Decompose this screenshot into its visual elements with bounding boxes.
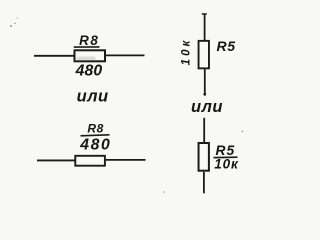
wire (left lead of resistor R8, bottom-left): [37, 159, 75, 161]
paper speck: [16, 17, 17, 18]
wire end blob (bottom of R5 lower lead): [203, 93, 206, 96]
paper speck: [242, 131, 244, 133]
svg-text:или: или: [77, 88, 109, 106]
wire (right lead of resistor R8, top-left): [106, 54, 145, 56]
svg-text:или: или: [191, 98, 223, 116]
svg-text:10к: 10к: [180, 38, 192, 66]
paper speck: [163, 191, 165, 193]
resistor R8 (bottom-left, horizontal body): [75, 156, 105, 166]
smudge inside resistor R8 body (scan artifact): [77, 57, 96, 61]
wire (upper lead of resistor R5, bottom-right): [203, 118, 205, 143]
paper speck: [14, 23, 15, 24]
fraction bar R8/480 (bottom-left): [81, 135, 110, 136]
wire (upper lead of resistor R5, top-right): [204, 14, 206, 42]
svg-text:10к: 10к: [214, 157, 239, 172]
resistor R5 (bottom-right, vertical body): [199, 143, 209, 171]
svg-text:R8: R8: [79, 33, 99, 48]
svg-text:480: 480: [79, 136, 111, 153]
fraction bar under R8 (top-left): [74, 46, 100, 48]
svg-text:R5: R5: [217, 38, 236, 54]
wire (right lead of resistor R8, bottom-left): [106, 159, 146, 161]
wire (lower lead of resistor R5, bottom-right): [203, 172, 205, 194]
svg-text:R8: R8: [87, 122, 104, 136]
wire end tick (top of R5 upper lead): [202, 13, 207, 15]
svg-text:480: 480: [75, 62, 103, 79]
fraction bar R5/10к (bottom-right): [214, 156, 238, 158]
resistor R8 (top-left, horizontal body): [75, 50, 106, 61]
resistor R5 (top-right, vertical body): [199, 41, 209, 69]
wire (left lead of resistor R8, top-left): [34, 55, 75, 57]
wire (lower lead of resistor R5, top-right): [204, 69, 206, 95]
paper speck: [10, 25, 12, 27]
